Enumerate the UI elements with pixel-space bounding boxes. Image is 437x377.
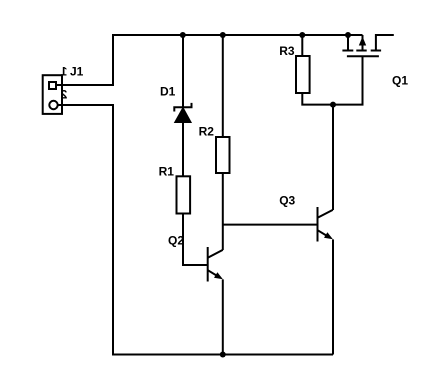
- wire R2 bottom to Q2 collector: [222, 173, 224, 250]
- resistor R3: [296, 56, 310, 93]
- Q1 body arrow: [359, 37, 366, 46]
- wire Q3 emitter to bottom rail: [332, 239, 334, 354]
- Q1 body contact: [356, 50, 366, 52]
- junction dot: top rail / R3: [299, 32, 305, 38]
- svg-text:R3: R3: [279, 44, 295, 58]
- wire bottom rail (GND net): [112, 354, 333, 356]
- wire top rail (VIN net): [112, 34, 363, 36]
- junction dot: gate node / Q3 collector: [330, 102, 336, 108]
- wire R1 bottom to Q2 base: [183, 214, 207, 266]
- Q1 drain lead: [376, 35, 394, 51]
- resistor R2: [216, 137, 230, 173]
- connector J1: [43, 75, 62, 114]
- wire J1 pin2 to bottom rail: [57, 105, 113, 355]
- wire Q3 collector to gate node: [332, 105, 334, 210]
- transistor Q1 (P-MOSFET): [342, 35, 393, 56]
- wire R2 top to top rail: [222, 35, 224, 137]
- Q1 body lead: [362, 35, 364, 51]
- junction dot: top rail / R2: [220, 32, 226, 38]
- wire Q2 emitter to bottom rail: [222, 279, 224, 354]
- junction dot: top rail / D1: [180, 32, 186, 38]
- junction dot: bottom rail / Q2 emitter: [220, 352, 226, 358]
- wire R3 top to top rail: [301, 35, 303, 56]
- svg-text:Q3: Q3: [279, 194, 295, 208]
- resistor R1: [177, 176, 191, 213]
- wire D1 cathode to top rail: [182, 35, 184, 107]
- Q1 source contact: [342, 50, 353, 52]
- Q1 gate plate: [347, 55, 379, 57]
- wire J1 pin1 to top rail: [57, 36, 113, 85]
- svg-text:D1: D1: [160, 84, 176, 98]
- svg-text:J1: J1: [70, 65, 84, 79]
- zener diode D1: [174, 103, 191, 123]
- svg-text:Q1: Q1: [392, 74, 408, 88]
- transistor Q3 (NPN): [318, 207, 333, 242]
- junction dot: top rail / Q1 source: [345, 32, 351, 38]
- svg-text:R1: R1: [159, 164, 175, 178]
- svg-text:Q2: Q2: [168, 233, 184, 247]
- Q1 drain contact: [371, 50, 381, 52]
- wire D1 anode to R1 top: [182, 122, 184, 176]
- svg-text:1: 1: [60, 65, 67, 79]
- wire R3 bottom to Q1 gate: [302, 56, 362, 104]
- transistor Q2 (NPN): [208, 247, 223, 282]
- wire node to Q3 base: [223, 224, 317, 226]
- svg-text:2: 2: [60, 88, 67, 102]
- Q1 source lead: [347, 35, 349, 51]
- svg-text:R2: R2: [199, 125, 215, 139]
